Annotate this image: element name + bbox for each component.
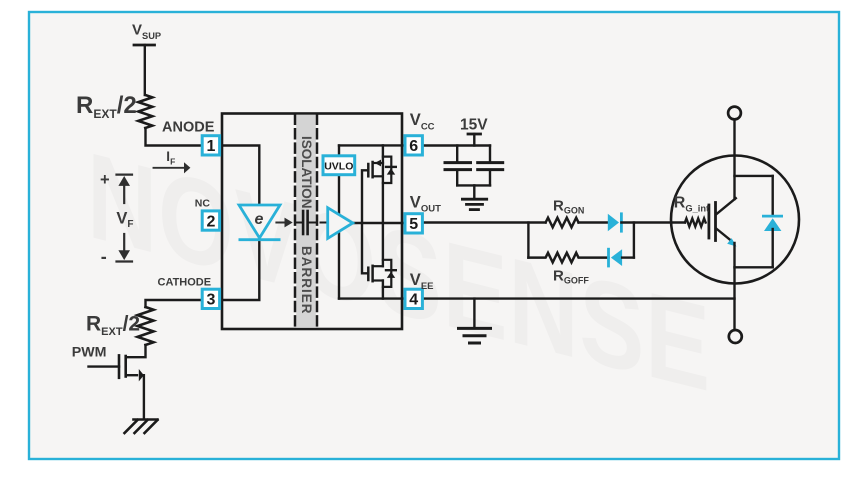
pin 5 [405,214,422,234]
svg-text:4: 4 [409,292,418,309]
wire VSUP to REXT/2 [144,45,146,95]
svg-text:e: e [255,211,264,228]
emitter-to-receiver arrow [276,218,292,228]
VEE rail from pin4 to IGBT emitter [425,297,735,299]
label PWM [72,344,107,360]
wire receiver to pin5 [353,222,403,224]
receiver amplifier [328,208,353,239]
value label RGON [553,198,584,216]
diode DON [608,214,622,231]
svg-text:2: 2 [206,213,215,230]
resistor RGOFF [528,253,608,263]
resistor RGON [546,218,579,228]
label VF [100,171,134,266]
label CATHODE [158,277,212,289]
transistor M2 output NMOS [368,260,396,299]
svg-text:CATHODE: CATHODE [158,277,212,289]
resistor REXT/2 (top) [138,95,152,128]
wire pin5 to RGON network [425,221,546,223]
transistor Q1 IGBT [671,121,799,330]
UVLO supply rail (vertical) [338,145,340,298]
label VEE [410,271,434,292]
wire DON to RG_int (node gate drive) [621,221,685,223]
VEE bottom rail to pin4 [339,297,403,299]
emitter terminal [729,330,742,343]
supply VSUP terminal [134,44,155,47]
wire VEE ground stem [473,299,475,327]
pin 6 [405,136,422,156]
svg-text:-: - [101,246,107,266]
svg-text:3: 3 [206,292,215,309]
value label RGOFF [553,267,589,285]
svg-text:15V: 15V [460,116,488,133]
wire pin3 to REXT/2 bottom [146,300,201,307]
svg-text:BARRIER: BARRIER [299,246,314,315]
label VSUP [132,21,161,41]
VCC top rail to pin6 [339,144,403,146]
supply 15V terminal [468,134,481,146]
svg-text:NC: NC [195,198,211,210]
chassis ground (PWM source) [125,420,158,434]
svg-text:ISOLATION: ISOLATION [299,136,314,209]
coupling capacitor (isolation) [295,211,327,234]
UVLO block [323,156,355,175]
label ANODE [162,120,215,136]
wire LED cathode to pin3 [221,241,259,300]
label 15V [460,116,488,133]
capacitor C1 [445,146,471,186]
resistor REXT/2 (bottom) [138,307,154,345]
svg-text:6: 6 [409,138,418,155]
label IF [166,149,175,166]
wire right branch of RGOFF loop [633,223,635,258]
wire left branch of RGOFF loop [527,223,529,258]
label VOUT [410,193,441,214]
pin 4 [405,289,422,309]
pin 2 [202,211,219,231]
svg-text:UVLO: UVLO [324,160,353,172]
collector terminal [728,107,741,120]
value label RG_int [674,195,709,214]
label VCC [410,111,435,132]
ground (VEE) [459,328,491,343]
pin 1 [202,136,219,156]
wire pin1 to LED anode [221,146,259,206]
gate rail of output stage [362,170,368,273]
svg-text:PWM: PWM [72,344,107,360]
wire pin6 to decoupling caps [425,144,491,146]
voltage annotation VF (dimension arrows) [117,175,133,262]
diode DOFF [609,249,634,266]
current arrow IF [154,162,191,173]
wire REXT/2 to pin 1 (node ANODE) [146,128,201,146]
svg-text:ANODE: ANODE [162,120,215,136]
transistor Q2 PWM input MOSFET [89,345,146,419]
freewheeling diode D1 branch [735,176,782,267]
resistor RG_int [685,219,706,227]
value label REXT/2 (bottom) [86,313,140,339]
label NC [195,198,211,210]
ground (15V caps) [462,199,486,209]
svg-text:5: 5 [409,216,418,233]
label e (emitter) [255,211,264,228]
drain rail of output stage [382,163,384,266]
wire RGON to diode DON [579,221,609,223]
svg-text:+: + [100,171,110,189]
svg-text:1: 1 [206,138,215,155]
wire caps bottom junction [457,185,490,198]
opto LED emitter [239,205,281,240]
pin 3 [202,289,219,309]
capacitor C2 [478,146,503,186]
gate driver IC outline U1 [222,114,402,330]
transistor M1 output PMOS [368,145,396,183]
value label REXT/2 (top) [76,92,137,121]
isolation barrier band [295,115,317,328]
